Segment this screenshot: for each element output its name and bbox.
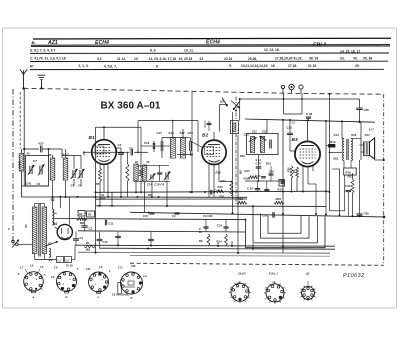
capacitor C36 on bus	[359, 160, 361, 214]
bus line y199	[96, 198, 248, 200]
node antenna input junction	[23, 148, 25, 150]
svg-text:R16: R16	[244, 176, 250, 180]
svg-text:S16: S16	[169, 131, 175, 135]
wires oscillator verticals to buses	[135, 181, 137, 192]
socket a key tab	[32, 291, 36, 293]
socket c (ECH4 base view)	[89, 272, 109, 292]
capacitor C35	[356, 107, 362, 109]
svg-text:B1: B1	[89, 135, 95, 141]
svg-text:38, 39: 38, 39	[309, 57, 318, 61]
svg-text:54: 54	[54, 212, 57, 216]
svg-text:4, 5,6, 7,: 4, 5,6, 7,	[104, 64, 117, 68]
svg-text:21 22.: 21 22.	[308, 64, 317, 68]
svg-text:8: 8	[156, 64, 158, 68]
tube table rule under tube-name row (double)	[31, 44, 390, 47]
wire grid into B3	[290, 150, 295, 152]
capacitor C15	[157, 172, 162, 174]
svg-text:8, 9.: 8, 9.	[150, 49, 156, 53]
capacitor C3 smoothing	[81, 225, 87, 227]
capacitor on bus under B2	[210, 190, 212, 195]
svg-text:C41: C41	[26, 182, 32, 186]
wires under B2 to buses	[208, 178, 210, 197]
svg-text:R6: R6	[148, 193, 152, 197]
variable capacitor C4 tuning	[39, 166, 41, 175]
antenna symbol	[23, 75, 25, 89]
resistor R18 box under transformer	[344, 168, 357, 175]
capacitor C19 mid	[148, 238, 154, 240]
svg-text:2, 1, 3.: 2, 1, 3.	[79, 64, 89, 68]
transformer S1 core	[38, 204, 40, 257]
svg-text:C3: C3	[89, 227, 93, 231]
svg-text:C20: C20	[86, 268, 91, 271]
svg-text:S12: S12	[252, 130, 257, 134]
svg-text:8,17: 8,17	[369, 129, 374, 132]
coil S13	[260, 137, 264, 153]
choke L1 box	[57, 257, 64, 263]
feedback loop rectangle outer	[246, 216, 326, 247]
capacitor C19 above B2	[208, 121, 210, 123]
tube B1 inner grid rect	[95, 146, 104, 154]
wires transformer top to bus	[34, 204, 36, 208]
coil S16 IF1 primary	[170, 138, 175, 159]
tube B2 grid dashes	[207, 147, 222, 149]
tube B4 internals	[61, 228, 63, 234]
resistor R6 vertical left of oscillator	[126, 164, 129, 182]
svg-text:C15: C15	[154, 183, 160, 187]
choke L2 box	[65, 257, 72, 263]
capacitor C22 body	[175, 212, 180, 214]
svg-text:C2): C2)	[143, 214, 148, 218]
svg-text:3,2: 3,2	[97, 57, 102, 61]
wire AVC drop x141	[140, 127, 142, 146]
vertical x339.5 right of B3	[339, 169, 341, 215]
tube B2 bottom pins	[208, 164, 210, 178]
tube table rule under S row	[30, 52, 389, 54]
variable capacitor C6	[79, 170, 81, 178]
svg-text:10, 11.: 10, 11.	[184, 49, 194, 53]
svg-text:C34: C34	[345, 184, 351, 188]
bus line y248.7	[100, 248, 335, 249]
wire terminal loop down	[283, 93, 285, 114]
svg-text:9.: 9.	[229, 64, 232, 68]
svg-text:S1: S1	[24, 224, 28, 228]
output transformer primary winding	[343, 139, 344, 161]
bus line y197	[52, 196, 247, 198]
svg-text:C14: C14	[147, 183, 153, 187]
wire under C2 down to bus	[120, 154, 122, 197]
socket b (ECH4 base view)	[57, 272, 77, 292]
svg-text:S13: S13	[262, 130, 267, 134]
tube table rule under C row	[30, 60, 388, 62]
svg-text:27,28,29,30 31,32,: 27,28,29,30 31,32,	[275, 57, 303, 61]
tube table rule under R row	[30, 68, 384, 70]
oscillator padder box	[231, 121, 239, 134]
chassis border dashed top	[24, 88, 384, 94]
capacitor C17 body	[160, 141, 162, 151]
feedback loop rectangle inner	[268, 216, 301, 233]
svg-text:MΩ: MΩ	[240, 170, 243, 174]
svg-text:AZ1: AZ1	[47, 40, 58, 46]
wires under transformer	[34, 254, 36, 260]
transformer S1 secondary winding	[42, 207, 47, 254]
svg-text:C17: C17	[157, 131, 163, 135]
output transformer secondary winding	[351, 139, 352, 161]
capacitor C1b	[73, 238, 79, 240]
wires speaker connections	[360, 144, 364, 146]
capacitor C2 at B1 anode	[116, 147, 121, 149]
svg-text:R5: R5	[96, 182, 100, 186]
wire speaker to right border	[375, 159, 384, 161]
long vertical x326	[325, 121, 327, 215]
svg-text:C6: C6	[78, 184, 82, 188]
earth symbol	[41, 80, 43, 89]
svg-text:25,26,: 25,26,	[248, 57, 257, 61]
svg-text:17,18.: 17,18.	[288, 64, 297, 68]
capacitor C20 body	[189, 141, 191, 151]
long vertical x283 through IF area	[282, 120, 284, 253]
switch arrows crossing stem	[231, 101, 240, 109]
capacitor C1 series antenna	[24, 148, 39, 150]
mains switch on border	[12, 240, 15, 243]
bus line y205.8	[96, 205, 327, 208]
wires transformer top	[341, 121, 343, 138]
svg-text:R20: R20	[288, 167, 291, 172]
wire y152.4 to output transformer	[330, 151, 343, 153]
svg-text:R9: R9	[199, 239, 203, 243]
svg-text:10,11,12,13,14,15: 10,11,12,13,14,15	[241, 64, 268, 68]
tube B3 top lead to HT line	[307, 120, 309, 141]
svg-text:L2: L2	[66, 258, 70, 262]
wires under B3	[291, 178, 293, 192]
socket a (AZ1 base view)	[24, 272, 44, 292]
svg-text:19: 19	[146, 160, 150, 164]
resistor R20 vertical	[290, 166, 293, 178]
svg-text:C 25: C 25	[247, 187, 253, 191]
capacitor C12	[97, 238, 103, 240]
feedback loop rectangle second	[253, 206, 318, 243]
svg-text:13: 13	[134, 57, 138, 61]
wire y166 under IF2	[259, 165, 284, 167]
tube B3 cathode arc	[302, 162, 314, 164]
svg-text:R19: R19	[330, 140, 336, 144]
svg-text:R21: R21	[266, 161, 272, 165]
chassis border dashed right	[383, 94, 385, 265]
tube B2 envelope	[202, 140, 226, 164]
socket a leader lines	[25, 269, 28, 274]
svg-text:C3: C3	[292, 120, 296, 124]
svg-text:C14: C14	[256, 174, 261, 178]
tube B1 envelope	[92, 140, 117, 165]
resistor R17 box	[279, 180, 285, 187]
wires into B4	[69, 197, 71, 225]
band switch dash-dot stem	[235, 97, 237, 121]
svg-text:C 36: C 36	[306, 112, 312, 116]
svg-text:C4: C4	[37, 182, 41, 186]
output transformer core	[346, 139, 348, 160]
transformer S1 primary winding	[32, 207, 37, 254]
socket d (EBL1 base view)	[121, 272, 143, 294]
tube B1 top grid lead	[103, 127, 105, 140]
tube B4 rectifier envelope	[57, 224, 72, 239]
svg-text:19, 20 23: 19, 20 23	[179, 57, 193, 61]
svg-text:16368: 16368	[17, 160, 21, 168]
svg-text:C9 C23: C9 C23	[203, 214, 213, 218]
svg-text:18: 18	[135, 160, 139, 164]
bus junction dots	[95, 196, 97, 198]
wire from C1 down to band filter	[48, 149, 50, 156]
svg-text:C12: C12	[103, 240, 109, 244]
bus line y256 lower gray	[130, 254, 330, 257]
resistor R21 vertical	[296, 167, 299, 178]
chassis border dashed bottom	[130, 263, 384, 265]
svg-text:C: 41,74, 31, 3,3, 5,1 18: C: 41,74, 31, 3,3, 5,1 18	[30, 57, 66, 61]
svg-text:2X,(Y): 2X,(Y)	[237, 271, 245, 275]
svg-text:R17: R17	[278, 187, 284, 191]
svg-text:R23: R23	[240, 154, 245, 158]
resistor R7 on AVC column	[140, 146, 142, 169]
svg-text:b: b	[66, 295, 68, 299]
chokes S4 L1 L2 under transformer	[49, 249, 51, 258]
bus line y252.7 gray	[78, 252, 330, 253]
tube B2 top lead	[213, 132, 215, 140]
svg-text:C30: C30	[263, 214, 269, 218]
tube B1 cathode arc	[99, 160, 110, 162]
svg-text:K2: K2	[79, 212, 83, 216]
svg-text:C2: C2	[172, 214, 176, 218]
wire antenna down-lead solid	[23, 89, 25, 149]
svg-text:33,: 33,	[340, 57, 345, 61]
tube table top rule	[33, 37, 391, 40]
tube B1 grid dashes	[97, 147, 112, 149]
capacitor C8 coupling	[84, 151, 130, 153]
svg-text:R22: R22	[276, 197, 282, 201]
svg-text:R10: R10	[218, 185, 224, 189]
svg-text:S14: S14	[334, 133, 340, 137]
socket f (EBL1 underside)	[266, 284, 284, 302]
svg-text:C6: C6	[160, 183, 164, 187]
capacitor C13	[115, 235, 121, 237]
svg-text:S4: S4	[49, 258, 53, 262]
coil S5 antenna coil with value 16368	[21, 149, 23, 153]
bus line y192 long	[96, 191, 330, 192]
svg-text:R53: R53	[220, 195, 225, 198]
wire C35 drop from y99	[359, 99, 361, 108]
wire HT top line y119-122 sloped	[245, 119, 375, 122]
svg-text:C1: C1	[80, 236, 84, 240]
wires transformer bottoms down	[343, 161, 345, 169]
wire band filter top links	[49, 148, 63, 150]
capacitor C26 in IF2	[269, 140, 271, 149]
socket d side rectangle resistor	[118, 283, 122, 295]
wires IF1 tops and bottoms	[161, 138, 163, 142]
wire AVC line from B1 grid	[96, 126, 142, 128]
svg-text:ECH4: ECH4	[95, 40, 109, 46]
socket g (AZ1 underside)	[302, 286, 315, 299]
oscillator bottom rail	[134, 180, 170, 182]
IF2 transformer box	[247, 134, 279, 155]
wire horizontal y181	[245, 180, 283, 182]
oscillator top rail	[142, 164, 169, 166]
resistor R2 MOhm on bus	[77, 218, 88, 221]
variable capacitor C5	[72, 170, 74, 178]
svg-text:C7: C7	[33, 159, 37, 163]
svg-text:34,: 34,	[353, 57, 358, 61]
vertical ticks from bus y245 up	[117, 240, 119, 245]
svg-text:S16: S16	[351, 133, 357, 137]
wire vertical x344.7 down from R18	[344, 175, 346, 211]
wire long vertical left bus x95	[95, 127, 97, 252]
pickup terminal right	[299, 85, 303, 89]
svg-text:4,57: 4,57	[38, 142, 44, 146]
bus line y231.5	[78, 231, 246, 232]
svg-text:S18: S18	[333, 157, 339, 161]
svg-text:L1: L1	[58, 258, 62, 262]
box around input tuned circuit	[26, 156, 49, 187]
svg-text:25.: 25.	[355, 64, 360, 68]
tube B2 inner rect grid	[205, 147, 214, 155]
svg-text:S17: S17	[365, 133, 371, 137]
tube B2 anode bar	[208, 144, 220, 146]
corner wire x329-344 y210.8	[330, 210, 345, 212]
coil S17 IF1 secondary	[181, 138, 186, 159]
rectifier filament winding scallops	[52, 209, 54, 225]
wire B1 anode to IF1 top	[138, 120, 198, 122]
svg-text:20, 28: 20, 28	[66, 265, 73, 268]
svg-text:E.B.L.1: E.B.L.1	[269, 271, 278, 275]
capacitor C28 under	[264, 188, 269, 190]
variable capacitor C14	[150, 175, 152, 180]
long vertical wire x232.5	[232, 112, 234, 213]
svg-text:MΩ: MΩ	[80, 221, 84, 225]
svg-text:B2: B2	[202, 132, 208, 138]
variable capacitor C6	[165, 173, 167, 180]
svg-text:14, 15, 6,16, 17,18: 14, 15, 6,16, 17,18	[149, 57, 177, 61]
wire from 267 down	[266, 120, 268, 134]
resistor R5 vertical under B1 cathode	[99, 168, 102, 182]
svg-text:C31: C31	[287, 126, 293, 130]
pickup terminal ground symbol circled dot	[289, 84, 294, 89]
band switch dash-dot lower section	[235, 134, 237, 206]
bus line y219.5 left	[54, 219, 246, 220]
wire vertical x108 to bus	[107, 177, 109, 197]
svg-text:R1: R1	[86, 241, 90, 245]
svg-text:16: 16	[271, 64, 275, 68]
svg-text:S: 8,1 7, 3, 4, 6 7: S: 8,1 7, 3, 4, 6 7	[30, 48, 55, 52]
svg-text:R15: R15	[216, 171, 222, 175]
resistor box R3	[87, 211, 95, 217]
svg-text:14, 15, 16, 17: 14, 15, 16, 17	[340, 50, 360, 54]
tube B3 anode bar	[301, 145, 314, 147]
svg-text:0,8-100-5Ω mW.: 0,8-100-5Ω mW.	[112, 295, 129, 297]
svg-text:12, 13, 18.: 12, 13, 18.	[264, 48, 280, 52]
svg-text:S17: S17	[180, 131, 186, 135]
resistor box K2	[78, 211, 85, 217]
svg-text:2,17: 2,17	[118, 267, 123, 270]
svg-text:C18: C18	[144, 141, 150, 145]
wire IF1 secondary to B2 grid	[191, 141, 203, 148]
svg-text:C36: C36	[364, 211, 370, 215]
svg-text:C2: C2	[118, 143, 122, 147]
svg-text:C24: C24	[217, 223, 223, 227]
svg-text:35, 36: 35, 36	[363, 56, 372, 60]
svg-text:26: 26	[199, 230, 202, 234]
IF2 trimmer arrows	[249, 138, 257, 142]
svg-text:R12: R12	[221, 179, 227, 183]
variable capacitor C41 trimmer	[29, 166, 31, 174]
socket e (ECH4 underside)	[231, 283, 249, 301]
feedback loop rectangle third	[261, 213, 310, 238]
svg-text:EBL1: EBL1	[313, 43, 326, 49]
svg-text:B3: B3	[292, 137, 298, 143]
svg-text:R3: R3	[88, 213, 92, 217]
tube B3 envelope	[295, 141, 320, 166]
svg-text:(Z): (Z)	[306, 271, 310, 275]
wire x352.5 down to HT bus	[352, 193, 354, 216]
wire x112 short	[111, 192, 113, 206]
chassis border dash-dot left	[12, 89, 14, 246]
socket c key tab	[97, 291, 101, 293]
svg-text:C35: C35	[364, 108, 370, 112]
svg-text:MΩ: MΩ	[86, 247, 90, 251]
svg-text:ECH4: ECH4	[206, 40, 220, 46]
svg-text:22: 22	[200, 57, 204, 61]
svg-text:C8: C8	[129, 147, 133, 151]
svg-text:B4: B4	[53, 222, 57, 226]
speaker voice coil box	[364, 142, 370, 156]
svg-text:45: 45	[27, 152, 31, 156]
tube B3 bottom pins	[302, 166, 304, 175]
svg-text:R15: R15	[245, 169, 251, 173]
bus line y213-217 long sloped	[130, 212, 384, 217]
coil S12	[250, 137, 254, 153]
svg-text:S6: S6	[48, 153, 52, 157]
svg-text:R13: R13	[238, 197, 244, 201]
socket d inner marks	[128, 281, 134, 285]
capacitor C27 body	[256, 166, 262, 168]
wire antenna alternative dashed	[19, 92, 21, 149]
wire from switch left going down	[219, 105, 221, 132]
svg-text:11 12,: 11 12,	[117, 57, 126, 61]
tube B1 anode bar	[98, 144, 110, 146]
svg-text:BX 360 A–01: BX 360 A–01	[101, 101, 161, 112]
speaker cone	[370, 138, 375, 159]
svg-text:P10632: P10632	[343, 273, 365, 279]
socket b key tab	[65, 291, 69, 293]
wire mains to transformer	[18, 243, 32, 245]
wire band filter bottoms to bus	[22, 185, 49, 187]
svg-text:C29: C29	[269, 170, 274, 174]
coil S17 bottom rail and drop	[177, 154, 192, 156]
svg-text:C28: C28	[131, 265, 136, 268]
tube B3 grid dashes	[300, 148, 316, 150]
pickup terminal left	[281, 85, 284, 88]
bus line y245.7	[75, 245, 335, 246]
svg-text:d: d	[131, 296, 133, 300]
svg-text:C11: C11	[109, 222, 114, 226]
svg-text:B:: B:	[32, 40, 37, 45]
svg-text:R14: R14	[217, 240, 223, 244]
tube B1 bottom pins	[99, 163, 101, 168]
wire y99 to terminals	[240, 98, 360, 100]
long vertical x329.5 from top border	[329, 94, 331, 211]
svg-text:23 24: 23 24	[224, 57, 232, 61]
tube B2 cathode arc	[209, 160, 220, 162]
